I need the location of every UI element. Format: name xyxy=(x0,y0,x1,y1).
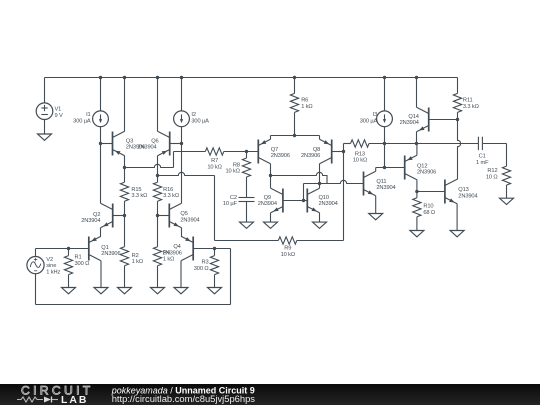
label Q10 xyxy=(319,195,338,207)
svg-text:1 kHz: 1 kHz xyxy=(46,269,60,275)
svg-text:Q9: Q9 xyxy=(264,195,271,201)
wire R15 to R2 xyxy=(124,201,126,247)
wire R2 to ground xyxy=(124,266,126,288)
svg-text:1 kΩ: 1 kΩ xyxy=(301,104,312,110)
wire Q6 collector to rail xyxy=(157,78,159,132)
label Q14 xyxy=(400,114,419,126)
resistor R13 xyxy=(351,140,370,147)
wire Q2/Q1 emitter link xyxy=(100,228,102,237)
svg-text:R1: R1 xyxy=(75,255,82,261)
transistor Q5 xyxy=(169,203,181,227)
wire C2 to ground xyxy=(246,202,248,223)
wire rail corner to R11 xyxy=(457,78,459,94)
svg-text:68 Ω: 68 Ω xyxy=(423,210,435,216)
svg-text:Q7: Q7 xyxy=(271,147,278,153)
label R8 10 kOhm xyxy=(225,162,239,174)
resistor R9 xyxy=(278,237,297,244)
svg-text:C2: C2 xyxy=(230,195,237,201)
wire I1 top lead xyxy=(100,78,102,111)
ground below R12 xyxy=(500,198,514,204)
wire Q9 collector stub xyxy=(270,176,272,189)
ground below Q9 xyxy=(264,222,278,228)
label Q11 xyxy=(376,179,395,191)
svg-text:Q6: Q6 xyxy=(151,138,158,144)
wire R12 top lead xyxy=(506,144,508,167)
node I3/Q11 collector xyxy=(383,166,386,169)
transistor Q12 xyxy=(405,155,417,179)
wire Q1 collector to ground xyxy=(100,261,102,288)
svg-text:1 mF: 1 mF xyxy=(476,160,489,166)
svg-text:R6: R6 xyxy=(301,98,308,104)
svg-text:R2: R2 xyxy=(132,253,139,259)
wire R1 to ground xyxy=(68,275,70,288)
ground below R1 xyxy=(62,288,76,294)
svg-text:10 µF: 10 µF xyxy=(223,201,238,207)
resistor R11 xyxy=(453,93,461,112)
current source I3 xyxy=(377,111,393,127)
transistor Q2 xyxy=(101,203,113,227)
svg-text:R16: R16 xyxy=(163,187,173,193)
svg-text:10 kΩ: 10 kΩ xyxy=(225,169,239,175)
wire Q13 emitter lead xyxy=(456,204,458,231)
svg-text:http://circuitlab.com/c8u5jvj5: http://circuitlab.com/c8u5jvj5p6hps xyxy=(112,393,256,404)
wire V1 bottom lead xyxy=(44,120,46,135)
resistor R2 xyxy=(120,247,128,266)
svg-text:Q13: Q13 xyxy=(458,187,468,193)
ground below R2 xyxy=(118,288,132,294)
label Q4 2N3906 xyxy=(163,251,182,257)
node R8 tap xyxy=(245,150,248,153)
svg-text:3.3 kΩ: 3.3 kΩ xyxy=(463,104,479,110)
svg-text:sine: sine xyxy=(46,263,56,269)
transistor Q10 xyxy=(307,188,319,212)
capacitor C2 xyxy=(239,198,255,202)
wire to R7 xyxy=(174,151,206,153)
svg-text:Q10: Q10 xyxy=(319,195,329,201)
voltage source V2 sine xyxy=(27,257,44,274)
wire R13 left lead xyxy=(344,143,351,145)
wire R7 riser xyxy=(173,152,175,168)
wire Q7 collector bus (hop over Q8 lead) xyxy=(271,172,328,183)
svg-text:2N3904: 2N3904 xyxy=(180,217,199,223)
wire R13 riser xyxy=(343,144,345,241)
wire Q11 collector stub xyxy=(375,168,377,172)
wire feedback riser xyxy=(230,249,232,305)
wire Q6 emitter lead xyxy=(157,156,159,183)
label Q13 xyxy=(458,187,477,199)
wire Q11 emitter lead xyxy=(375,196,377,214)
svg-text:10 kΩ: 10 kΩ xyxy=(353,157,367,163)
label Q9 xyxy=(264,195,271,201)
svg-text:300 Ω: 300 Ω xyxy=(194,266,209,272)
node Q7/Q9 collector xyxy=(269,174,272,177)
label R6 1 kOhm xyxy=(301,98,312,110)
wire Q4 base to feedback xyxy=(193,248,230,250)
wire I2 top lead xyxy=(181,78,183,111)
wire Q9 emitter lead xyxy=(270,213,272,222)
wire Q6 emitter to R9 (hop over I2 lead) xyxy=(158,172,215,175)
svg-text:2N3906: 2N3906 xyxy=(101,251,120,257)
wire I2 to Q5 collector xyxy=(181,127,183,204)
label R4 1 kOhm xyxy=(163,250,174,262)
wire Q9/Q10 base riser xyxy=(303,184,305,201)
svg-text:300 µA: 300 µA xyxy=(191,118,209,124)
resistor R12 xyxy=(502,166,510,185)
wire Q13 collector riser (hop over C1 bus) xyxy=(457,112,461,179)
svg-text:Q11: Q11 xyxy=(376,179,386,185)
wire Q3 emitter lead xyxy=(124,156,126,183)
svg-text:LAB: LAB xyxy=(61,395,88,405)
wire V1 top lead xyxy=(44,78,46,103)
label R7 10 kOhm xyxy=(207,158,221,171)
wire Q4 collector to ground xyxy=(180,261,182,288)
svg-text:2N3904: 2N3904 xyxy=(81,218,100,224)
transistor Q6 xyxy=(158,131,170,155)
svg-text:R11: R11 xyxy=(463,98,473,104)
svg-text:300 µA: 300 µA xyxy=(360,118,378,124)
svg-text:I3: I3 xyxy=(373,112,378,118)
svg-text:300 µA: 300 µA xyxy=(73,118,91,124)
svg-text:10 kΩ: 10 kΩ xyxy=(281,252,295,258)
wire R16 to R4 xyxy=(157,201,159,247)
ground below R10 xyxy=(410,231,424,237)
label I2 300 uA xyxy=(191,112,209,124)
ground below Q1 xyxy=(94,288,108,294)
wire R9 to R13 riser xyxy=(297,240,344,242)
svg-text:I2: I2 xyxy=(191,112,196,118)
ground below V1 xyxy=(38,134,52,140)
wire mirror bus (hop over R13 riser) xyxy=(304,180,364,183)
ground below R3 xyxy=(208,288,222,294)
wire V2 top lead xyxy=(35,249,37,257)
transistor Q7 xyxy=(258,139,270,163)
wire Q8 collector lead xyxy=(319,164,321,184)
wire Q12 emitter stub xyxy=(416,144,418,156)
junction on supply rail x=416.5 xyxy=(415,76,418,79)
wire Q11 collector to Q12 base xyxy=(376,167,405,169)
wire R13 to C1 bus xyxy=(369,143,478,145)
label C1 1 mF xyxy=(476,154,489,166)
node R3 tap xyxy=(213,247,216,250)
current source I1 xyxy=(93,111,109,127)
resistor R3 xyxy=(210,256,218,275)
ground below C2 xyxy=(240,222,254,228)
transistor Q11 xyxy=(364,171,376,195)
wire C1 to R12 xyxy=(483,143,507,145)
wire R4 to ground xyxy=(157,266,159,288)
svg-text:Q8: Q8 xyxy=(313,147,320,153)
node Q12 collector/R10/Q13 base xyxy=(415,190,418,193)
wire R8 top lead xyxy=(246,152,248,159)
resistor R15 xyxy=(120,182,128,201)
svg-text:300 Ω: 300 Ω xyxy=(75,261,90,267)
node R15/Q2 base/R2 xyxy=(123,214,126,217)
svg-text:2N3904: 2N3904 xyxy=(458,193,477,199)
label V2 sine 1 kHz xyxy=(46,257,60,275)
wire I3 bottom lead xyxy=(384,127,386,168)
label R3 300 Ohm xyxy=(194,260,209,272)
wire R12 to ground xyxy=(506,185,508,198)
label R10 68 Ohm xyxy=(423,204,435,216)
wire R3 top lead xyxy=(214,249,216,256)
svg-text:R13: R13 xyxy=(355,151,365,157)
wire to R9 xyxy=(215,240,279,242)
label C2 10 uF xyxy=(223,195,238,207)
svg-text:R8: R8 xyxy=(233,162,240,168)
svg-text:3.3 kΩ: 3.3 kΩ xyxy=(131,193,147,199)
wire Q3 emitter to R7 (hop over Q6 lead) xyxy=(125,164,174,167)
transistor Q8 xyxy=(320,139,332,163)
wire I1 to Q2 collector xyxy=(100,127,102,204)
svg-text:2N3904: 2N3904 xyxy=(376,185,395,191)
transistor Q1 xyxy=(89,236,101,260)
wire Q10 emitter lead xyxy=(319,213,321,222)
transistor Q13 xyxy=(445,179,457,203)
svg-text:Q14: Q14 xyxy=(408,114,418,120)
wire Q3 collector to rail xyxy=(124,78,126,132)
wire Q8 emitter stub xyxy=(319,136,321,140)
wire Q7 collector lead xyxy=(270,164,272,176)
wire R1 top lead xyxy=(68,249,70,256)
wire Q7 emitter stub xyxy=(270,136,272,140)
ground below Q13 xyxy=(450,231,464,237)
label Q12 xyxy=(417,164,436,176)
wire R6 bottom lead xyxy=(294,112,296,135)
svg-text:10 Ω: 10 Ω xyxy=(486,174,498,180)
svg-text:2N3904: 2N3904 xyxy=(258,201,277,207)
capacitor C1 xyxy=(478,137,482,150)
wire I3 top lead xyxy=(384,78,386,111)
label Q1 xyxy=(101,245,120,257)
junction on supply rail x=384.5 xyxy=(383,76,386,79)
wire Q3 base xyxy=(101,143,113,145)
svg-text:2N3904: 2N3904 xyxy=(319,201,338,207)
label R13 10 kOhm xyxy=(353,151,367,163)
svg-text:R10: R10 xyxy=(423,204,433,210)
CircuitLab logo xyxy=(17,383,94,405)
svg-text:2N3904: 2N3904 xyxy=(137,145,156,151)
label I3 300 uA xyxy=(360,112,378,124)
node Q3 emitter / R7 tap xyxy=(123,166,126,169)
junction on supply rail x=100.5 xyxy=(99,76,102,79)
transistor Q4 xyxy=(181,236,193,260)
label R16 3.3 kOhm xyxy=(163,187,179,199)
svg-text:R3: R3 xyxy=(201,260,208,266)
wire R9 riser left xyxy=(214,176,216,241)
resistor R7 xyxy=(205,148,224,155)
node I2/Q6 base junction xyxy=(180,142,183,145)
wire Q5/Q4 emitter link xyxy=(181,228,183,237)
label R2 1 kOhm xyxy=(132,253,143,265)
wire Q12 collector lead xyxy=(416,180,418,198)
label R9 10 kOhm xyxy=(281,246,295,258)
footer bar xyxy=(0,384,540,405)
ground below Q4 xyxy=(174,288,188,294)
wire R7 to Q7 base xyxy=(224,151,258,153)
svg-text:I1: I1 xyxy=(86,112,91,118)
svg-text:9 V: 9 V xyxy=(55,113,64,119)
resistor R4 xyxy=(153,247,161,266)
label Q2 xyxy=(81,212,100,224)
label R15 3.3 kOhm xyxy=(131,187,147,199)
node Q14 base junction xyxy=(456,118,459,121)
label R12 10 Ohm xyxy=(486,168,498,180)
svg-text:2N3906: 2N3906 xyxy=(301,153,320,159)
wire top supply rail xyxy=(45,77,458,79)
svg-text:2N3904: 2N3904 xyxy=(400,120,419,126)
wire R6 top lead xyxy=(294,78,296,94)
current source I2 xyxy=(174,111,190,127)
label Q8 xyxy=(301,147,320,159)
svg-text:V1: V1 xyxy=(55,107,62,113)
svg-text:3.3 kΩ: 3.3 kΩ xyxy=(163,193,179,199)
wire V2 to Q1 base xyxy=(36,248,89,250)
svg-text:R7: R7 xyxy=(211,158,218,164)
node Q8 collector junction xyxy=(318,182,321,185)
resistor R10 xyxy=(413,198,421,217)
svg-text:Q3: Q3 xyxy=(126,138,133,144)
junction on supply rail x=124.5 xyxy=(123,76,126,79)
wire Q7/Q8 emitter rail xyxy=(271,135,320,137)
resistor R8 xyxy=(242,158,250,177)
wire Q14 collector lead xyxy=(416,78,418,108)
junction on supply rail x=294.5 xyxy=(293,76,296,79)
label V1 9 V xyxy=(55,107,64,119)
svg-text:2N3906: 2N3906 xyxy=(417,170,436,176)
wire Q13 base xyxy=(417,191,445,193)
wire Q14 base xyxy=(429,119,458,121)
label Q3 xyxy=(126,138,133,144)
ground below Q11 xyxy=(369,214,383,220)
svg-text:10 kΩ: 10 kΩ xyxy=(207,165,221,171)
label Q9 2N3904 xyxy=(258,201,277,207)
wire Q5 base xyxy=(158,215,170,217)
resistor R6 xyxy=(290,93,298,112)
wire Q10 collector stub xyxy=(319,184,321,189)
label I1 300 uA xyxy=(73,112,91,124)
node base tie junction xyxy=(302,199,305,202)
junction on supply rail x=157.5 xyxy=(156,76,159,79)
resistor R16 xyxy=(153,182,161,201)
ground below Q10 xyxy=(313,222,327,228)
svg-text:2N3906: 2N3906 xyxy=(271,153,290,159)
node R1 tap xyxy=(67,247,70,250)
svg-text:C1: C1 xyxy=(479,154,486,160)
wire feedback bottom xyxy=(36,304,231,306)
wire R10 to ground xyxy=(416,217,418,231)
svg-text:Q5: Q5 xyxy=(180,211,187,217)
wire Q2 base xyxy=(113,215,125,217)
svg-text:Q2: Q2 xyxy=(93,212,100,218)
node Q8 base junction xyxy=(342,150,345,153)
svg-text:Q12: Q12 xyxy=(417,164,427,170)
node Q6 emitter / R9 tap xyxy=(156,174,159,177)
label Q4 xyxy=(173,244,180,250)
label Q3 2N3906 xyxy=(126,145,145,151)
svg-text:Q1: Q1 xyxy=(101,245,108,251)
transistor Q3 xyxy=(113,131,125,155)
junction on supply rail x=181.5 xyxy=(180,76,183,79)
voltage source V1 xyxy=(36,103,53,120)
wire R3 to ground xyxy=(214,275,216,288)
node I1/Q3 base junction xyxy=(99,142,102,145)
node R6/emitter rail xyxy=(293,134,296,137)
wire R8 to C2 xyxy=(246,177,248,198)
wire Q14 emitter lead xyxy=(416,132,418,144)
label Q6 2N3904 xyxy=(137,145,156,151)
svg-text:2N3906: 2N3906 xyxy=(163,251,182,257)
node R16/Q5 base/R4 xyxy=(156,214,159,217)
transistor Q14 xyxy=(417,107,429,131)
resistor R1 xyxy=(64,256,72,275)
svg-text:R9: R9 xyxy=(284,246,291,252)
label Q5 xyxy=(180,211,199,223)
node I3/R13/C1 bus xyxy=(383,142,386,145)
label Q6 xyxy=(151,138,158,144)
wire V2 bottom lead xyxy=(35,274,37,305)
svg-text:1 kΩ: 1 kΩ xyxy=(132,259,143,265)
wire Q9/Q10 base tie xyxy=(283,200,307,202)
svg-text:R15: R15 xyxy=(131,187,141,193)
label Q7 xyxy=(271,147,290,159)
wire Q6 base xyxy=(170,143,182,145)
ground below R4 xyxy=(151,288,165,294)
svg-text:1 kΩ: 1 kΩ xyxy=(163,256,174,262)
node Q14/Q12 emitter junction xyxy=(415,142,418,145)
label R11 3.3 kOhm xyxy=(463,98,479,110)
svg-text:R12: R12 xyxy=(487,168,497,174)
wire Q8 base xyxy=(332,151,344,153)
transistor Q9 xyxy=(271,188,283,212)
svg-text:Q4: Q4 xyxy=(173,244,180,250)
svg-text:V2: V2 xyxy=(46,257,53,263)
label R1 300 Ohm xyxy=(75,255,90,267)
